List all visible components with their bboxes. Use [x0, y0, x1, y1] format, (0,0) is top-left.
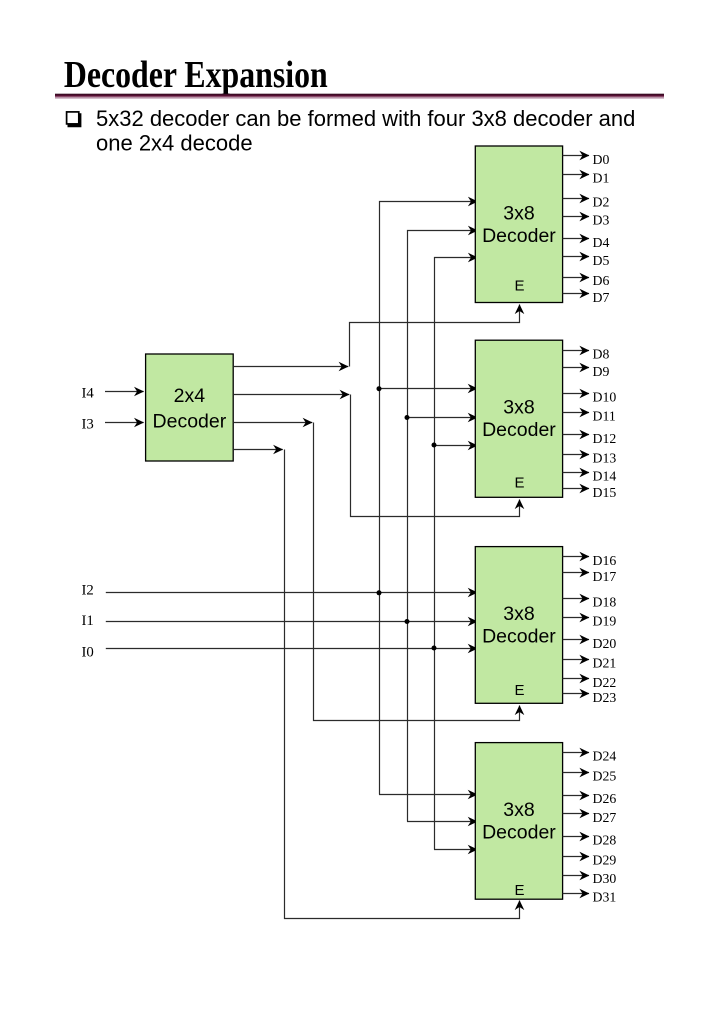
svg-text:D14: D14 [593, 469, 617, 484]
wire I0 line into U3 [106, 648, 478, 650]
wire output D27 arrow [563, 813, 589, 815]
title underline rule [55, 94, 664, 97]
wire output D19 arrow [563, 617, 589, 619]
svg-text:E: E [514, 475, 524, 492]
svg-text:3x8: 3x8 [503, 397, 534, 419]
wire bus B branch to U4 input 1 [407, 821, 477, 823]
wire bus C branch to U4 input 2 [434, 849, 477, 851]
svg-text:D2: D2 [593, 195, 610, 210]
wire I1 line into U3 [106, 621, 478, 623]
wire output D26 arrow [563, 795, 589, 797]
bullet square [67, 112, 80, 126]
svg-text:Decoder: Decoder [482, 626, 556, 648]
svg-text:D4: D4 [593, 235, 610, 250]
decoder 3x8 U4 box [475, 743, 562, 900]
wire output D21 arrow [563, 659, 589, 661]
wire bus B branch to U2 input 1 [407, 417, 477, 419]
svg-text:D30: D30 [593, 871, 617, 886]
svg-text:E: E [514, 682, 524, 699]
svg-text:D3: D3 [593, 213, 610, 228]
svg-text:D12: D12 [593, 431, 617, 446]
decoder 3x8 U2 box [475, 340, 562, 497]
wire output D20 arrow [563, 639, 589, 641]
svg-text:D21: D21 [593, 656, 617, 671]
wire output D14 arrow [563, 472, 589, 474]
wire bus A elbow to U1 input 0 [380, 202, 478, 795]
svg-text:3x8: 3x8 [503, 202, 534, 224]
svg-text:D19: D19 [593, 613, 617, 628]
svg-text:D6: D6 [593, 273, 610, 288]
wire output D30 arrow [563, 875, 589, 877]
svg-text:D1: D1 [593, 170, 610, 185]
svg-text:D23: D23 [593, 690, 617, 705]
junction bus C / I0 line [432, 646, 437, 651]
wire output D16 arrow [563, 556, 589, 558]
wire enable E2 segment from 2x4 output 1 [233, 394, 349, 396]
wire output D13 arrow [563, 454, 589, 456]
wire output D8 arrow [563, 350, 589, 352]
wire output D12 arrow [563, 434, 589, 436]
svg-text:D15: D15 [593, 485, 617, 500]
wire output D25 arrow [563, 772, 589, 774]
svg-text:3x8: 3x8 [503, 799, 534, 821]
wire I2 line into U3 [106, 592, 478, 594]
wire enable E1 elbow to U1 [350, 305, 520, 367]
svg-text:2x4: 2x4 [174, 385, 206, 407]
wire output D23 arrow [563, 693, 589, 695]
svg-text:E: E [514, 277, 524, 294]
svg-text:D13: D13 [593, 451, 617, 466]
junction bus B / I1 line [405, 619, 410, 624]
decoder 3x8 U3 box [475, 547, 562, 704]
svg-text:D10: D10 [593, 389, 617, 404]
wire output D9 arrow [563, 367, 589, 369]
wire output D0 arrow [563, 155, 589, 157]
wire enable E4 elbow to U4 [285, 450, 520, 919]
decoder 2x4 U5 box [146, 354, 234, 461]
wire bus B elbow to U1 input 1 [408, 231, 478, 822]
svg-text:Decoder: Decoder [153, 411, 227, 433]
svg-text:D20: D20 [593, 636, 617, 651]
svg-text:I2: I2 [82, 583, 94, 599]
svg-text:D7: D7 [593, 290, 610, 305]
wire output D15 arrow [563, 488, 589, 490]
wire output D3 arrow [563, 216, 589, 218]
svg-text:D18: D18 [593, 594, 617, 609]
svg-text:D11: D11 [593, 408, 616, 423]
wire output D28 arrow [563, 836, 589, 838]
svg-text:Decoder: Decoder [482, 419, 556, 441]
svg-text:D25: D25 [593, 769, 617, 784]
wire output D2 arrow [563, 198, 589, 200]
svg-text:D8: D8 [593, 347, 610, 362]
wire output D1 arrow [563, 174, 589, 176]
svg-text:I0: I0 [82, 645, 94, 661]
wire enable E1 segment from 2x4 output 0 [233, 366, 348, 368]
svg-text:D28: D28 [593, 833, 617, 848]
wire output D6 arrow [563, 277, 589, 279]
junction bus C / U2 branch [432, 443, 437, 448]
decoder 3x8 U1 box [475, 146, 562, 303]
wire enable E4 segment from 2x4 output 3 [233, 449, 283, 451]
svg-text:D31: D31 [593, 889, 617, 904]
svg-text:E: E [514, 882, 524, 899]
svg-text:D29: D29 [593, 853, 617, 868]
wire output D7 arrow [563, 293, 589, 295]
svg-text:Decoder: Decoder [482, 225, 556, 247]
svg-text:D22: D22 [593, 675, 617, 690]
wire I4 input arrow [105, 391, 144, 393]
wire enable E2 elbow to U2 [351, 395, 520, 517]
wire bus A branch to U4 input 0 [379, 794, 477, 796]
svg-text:I4: I4 [82, 386, 95, 402]
svg-text:D9: D9 [593, 364, 610, 379]
wire output D18 arrow [563, 598, 589, 600]
svg-text:D17: D17 [593, 569, 617, 584]
svg-text:Decoder: Decoder [482, 822, 556, 844]
wire output D31 arrow [563, 893, 589, 895]
wire bus C branch to U2 input 2 [434, 445, 477, 447]
junction bus A / U2 branch [377, 386, 382, 391]
wire output D4 arrow [563, 238, 589, 240]
svg-text:3x8: 3x8 [503, 603, 534, 625]
junction bus A / I2 line [377, 590, 382, 595]
svg-text:I1: I1 [82, 613, 94, 629]
svg-text:D27: D27 [593, 810, 617, 825]
svg-text:I3: I3 [82, 417, 94, 433]
wire enable E3 segment from 2x4 output 2 [233, 422, 312, 424]
wire bus A branch to U2 input 0 [379, 388, 477, 390]
wire enable E3 elbow to U3 [314, 423, 520, 721]
wire I3 input arrow [105, 422, 144, 424]
junction bus B / U2 branch [405, 415, 410, 420]
svg-text:Decoder Expansion: Decoder Expansion [64, 53, 328, 95]
svg-text:D5: D5 [593, 253, 610, 268]
wire output D29 arrow [563, 856, 589, 858]
wire bus C elbow to U1 input 2 [435, 258, 478, 850]
wire output D11 arrow [563, 412, 589, 414]
wire output D17 arrow [563, 572, 589, 574]
svg-text:D16: D16 [593, 553, 617, 568]
wire output D10 arrow [563, 393, 589, 395]
wire output D24 arrow [563, 752, 589, 754]
svg-text:D0: D0 [593, 152, 610, 167]
svg-text:D24: D24 [593, 749, 617, 764]
wire output D5 arrow [563, 256, 589, 258]
wire output D22 arrow [563, 678, 589, 680]
svg-text:D26: D26 [593, 791, 617, 806]
